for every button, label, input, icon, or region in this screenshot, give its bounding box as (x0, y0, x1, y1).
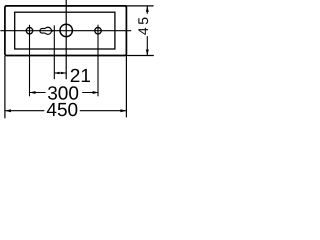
keyhole pointed tip (51, 29, 54, 32)
left mounting hole (26, 27, 33, 34)
dimension 450 right arrow (120, 109, 126, 112)
dimension 21 left arrow (54, 72, 59, 75)
right extension line for 450 (125, 56, 127, 118)
outer body rectangle (5, 6, 127, 56)
center hole (60, 24, 72, 36)
dimension 450 left arrow (5, 109, 11, 112)
dimension 300 right arrow (93, 91, 99, 94)
dimension 450 left line (5, 110, 45, 112)
left hole centerline / extension line (29, 25, 31, 97)
dimension 300 left arrow (30, 91, 36, 94)
keyhole circle (45, 27, 51, 34)
top extension line for 45 (126, 5, 154, 7)
dimension 21 right arrow (61, 72, 66, 75)
right hole centerline / extension line (97, 25, 99, 97)
dimension 45 down arrow (146, 50, 149, 56)
dimension 450 right line (80, 110, 127, 112)
horizontal centerline (0, 30, 131, 32)
dimension 45 top line segment (146, 6, 148, 14)
dimension 45 bottom line segment (146, 36, 148, 55)
right mounting hole (95, 27, 102, 34)
svg-text:450: 450 (46, 100, 78, 121)
dimension 300 left line (30, 92, 46, 94)
dimension 45 up arrow (146, 6, 149, 12)
left extension line for 450 (4, 56, 6, 119)
inner panel rectangle (15, 12, 115, 49)
dimension 300 right line (82, 92, 98, 94)
keyhole slot stadium (40, 29, 45, 34)
keyhole extension line (53, 25, 55, 79)
svg-text:45: 45 (135, 15, 151, 36)
bottom extension line for 45 (126, 55, 154, 57)
dimension 21 line (54, 72, 66, 74)
vertical centerline through center hole (65, 0, 67, 79)
